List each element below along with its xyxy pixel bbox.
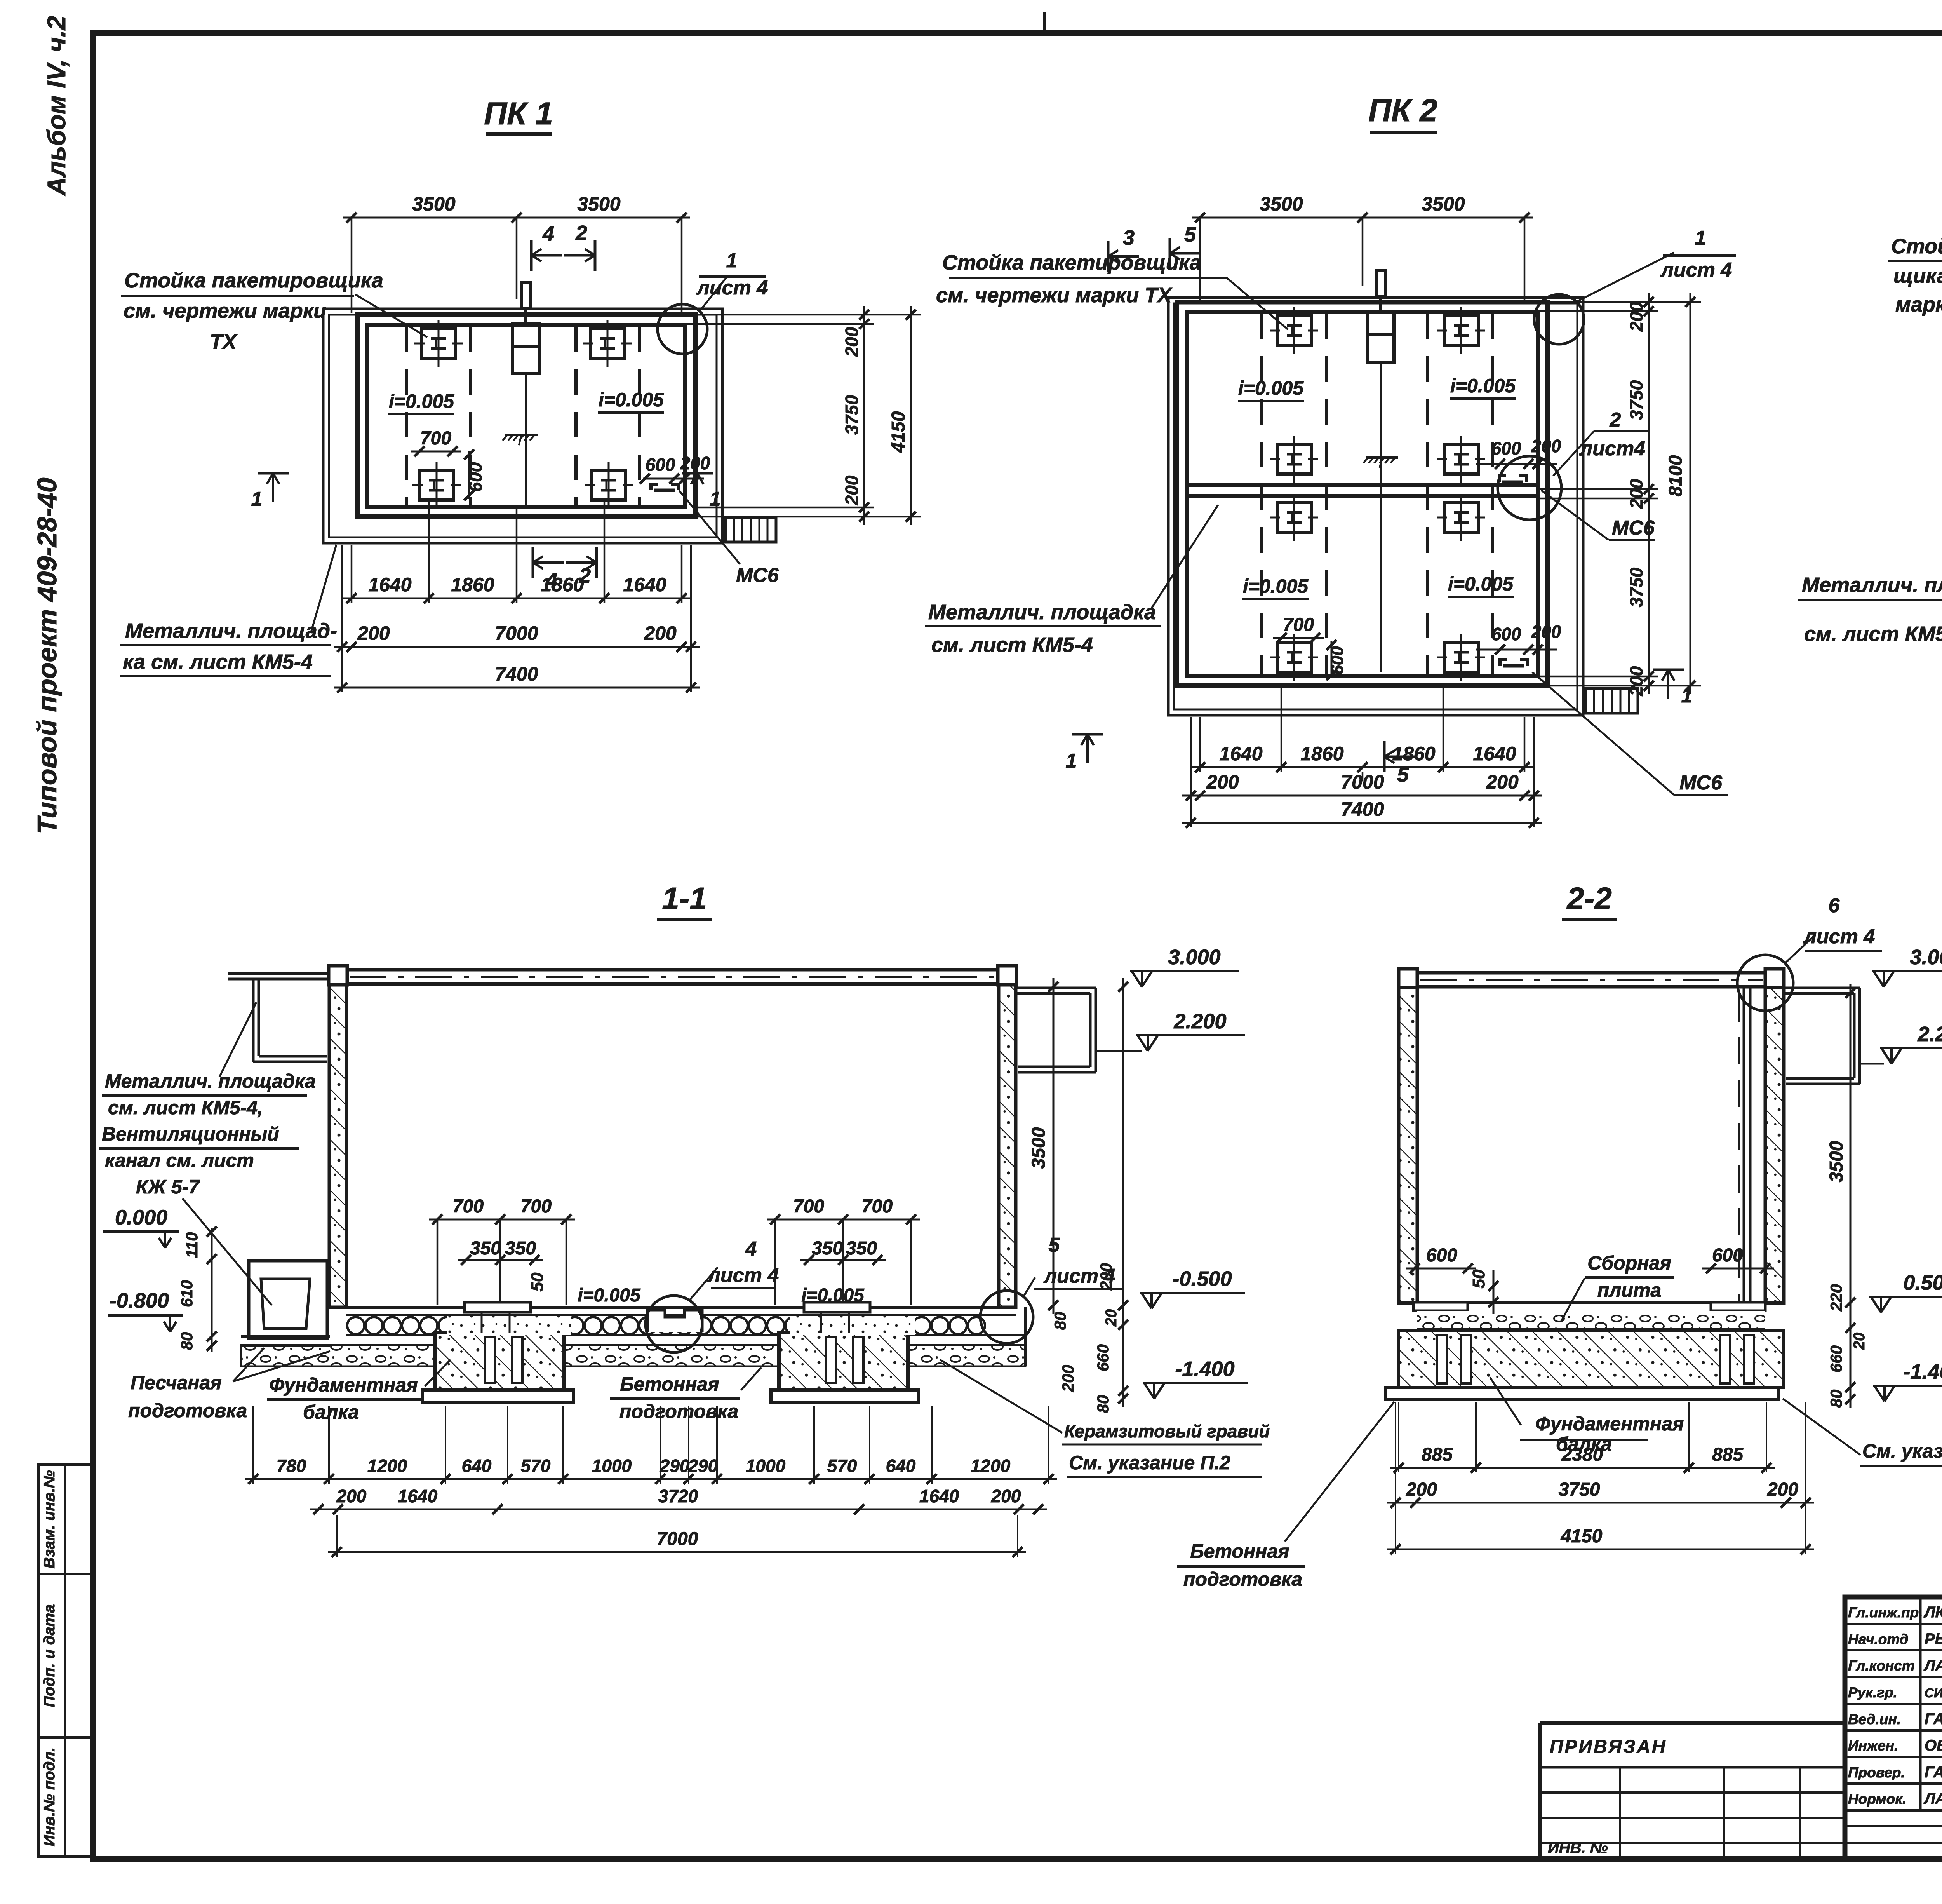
- svg-text:ЛАПКИН: ЛАПКИН: [1923, 1790, 1942, 1807]
- plan PK2 stands: [1277, 316, 1311, 345]
- svg-text:лист 4: лист 4: [696, 277, 768, 299]
- svg-text:290: 290: [688, 1456, 718, 1476]
- section 1-1 joint zone left: [447, 1316, 571, 1335]
- plan PK1 leader площадка: [311, 545, 336, 633]
- svg-text:балка: балка: [303, 1401, 359, 1423]
- plan PK2 leader площадка: [1150, 505, 1218, 610]
- section 1-1 floor right end: [1024, 1307, 1027, 1366]
- svg-text:200: 200: [842, 475, 862, 505]
- section 2-2 leader бетонная подготовка: [1285, 1402, 1394, 1542]
- plan PK1 stand top-left: [421, 329, 456, 358]
- svg-text:Инв.№ подл.: Инв.№ подл.: [41, 1747, 58, 1847]
- svg-text:Рук.гр.: Рук.гр.: [1848, 1685, 1897, 1700]
- section 1-1 dim 350 350 left: [458, 1259, 543, 1261]
- section 1-1 bottom dim chain detailed: [245, 1478, 1057, 1480]
- svg-text:1640: 1640: [1473, 743, 1516, 765]
- svg-text:600: 600: [1712, 1245, 1743, 1266]
- svg-text:200: 200: [1486, 771, 1519, 793]
- svg-text:ГАЛЬПЕРИНА: ГАЛЬПЕРИНА: [1925, 1764, 1942, 1781]
- plan PK1 bottom dim 7400: [334, 687, 700, 689]
- title block привязан box: [1540, 1721, 1845, 1725]
- plan PK2 view mark 1 left: [1072, 733, 1103, 736]
- plan PK2 lane dashed lines: [1260, 314, 1263, 674]
- svg-text:ЛАПКИН: ЛАПКИН: [1923, 1657, 1942, 1674]
- svg-text:i=0.005: i=0.005: [1243, 575, 1309, 597]
- section 1-1 level 2.200: [1138, 1035, 1148, 1051]
- plan PK2 right dim 8100: [1690, 293, 1691, 694]
- svg-text:640: 640: [886, 1456, 916, 1476]
- svg-text:РЫБКИНА: РЫБКИНА: [1925, 1631, 1942, 1648]
- svg-text:Вентиляционный: Вентиляционный: [102, 1123, 279, 1145]
- svg-text:ПК 1: ПК 1: [484, 96, 553, 131]
- svg-text:1640: 1640: [623, 574, 666, 596]
- svg-text:200: 200: [644, 622, 677, 644]
- section 1-1 gravel band: [241, 1345, 1025, 1366]
- section 1-1 dim 350 350 right: [800, 1259, 886, 1261]
- plan PK2 leader стойка: [1227, 278, 1288, 329]
- svg-text:1: 1: [726, 249, 738, 272]
- section 2-2 right walkway bracket: [1784, 987, 1860, 989]
- svg-text:700: 700: [520, 1196, 552, 1217]
- svg-text:2-2: 2-2: [1566, 881, 1612, 916]
- section 1-1 floor bottom line: [346, 1334, 1025, 1336]
- plan PK1 chamber wall outer: [357, 315, 695, 517]
- svg-text:3.000: 3.000: [1910, 946, 1942, 969]
- svg-text:3750: 3750: [1626, 380, 1646, 420]
- section 2-2 callout circle 6: [1737, 955, 1793, 1011]
- svg-text:600: 600: [1328, 646, 1347, 675]
- svg-text:ЛЮБАВИН: ЛЮБАВИН: [1923, 1604, 1942, 1621]
- svg-text:80: 80: [1051, 1312, 1069, 1330]
- svg-text:1200: 1200: [971, 1456, 1011, 1476]
- svg-text:1860: 1860: [451, 574, 494, 596]
- svg-text:700: 700: [420, 428, 451, 449]
- plan PK2 stair hatch: [1585, 688, 1638, 713]
- svg-text:Стойка пакетировщика: Стойка пакетировщика: [124, 269, 383, 292]
- svg-text:700: 700: [793, 1196, 824, 1217]
- svg-text:1: 1: [251, 488, 263, 510]
- plan PK1 right dim 4150: [910, 306, 912, 525]
- plan PK2 section mark 3 top: [1107, 241, 1110, 272]
- svg-text:2.200: 2.200: [1917, 1023, 1942, 1046]
- svg-text:Бетонная: Бетонная: [620, 1373, 719, 1395]
- svg-text:1640: 1640: [1219, 743, 1262, 765]
- svg-text:СИНЕЛЬНИКОВА: СИНЕЛЬНИКОВА: [1925, 1686, 1942, 1700]
- plan PK1 callout circle 1: [658, 304, 707, 354]
- svg-text:200: 200: [357, 622, 390, 644]
- svg-text:3: 3: [1123, 226, 1135, 249]
- svg-text:ПК 2: ПК 2: [1368, 93, 1437, 128]
- section 1-1 foundation beam right: [779, 1333, 908, 1390]
- section 2-2 dim 600 left: [1406, 1268, 1476, 1270]
- plan PK2 dim 600 vertical: [1331, 641, 1333, 678]
- section 1-1 bottom dim chain 200 1640 3720 1640 200: [310, 1509, 1047, 1510]
- title block signature grid: [1919, 1597, 1922, 1810]
- svg-text:350: 350: [505, 1238, 536, 1259]
- section 1-1 right wall: [999, 985, 1016, 1307]
- svg-text:см. лист КМ5-4: см. лист КМ5-4: [1804, 622, 1942, 646]
- section 1-1 upstand left: [465, 1302, 531, 1312]
- section 2-2 base studs: [1437, 1335, 1447, 1383]
- section 1-1 left wall: [329, 985, 346, 1307]
- svg-text:780: 780: [277, 1456, 306, 1476]
- svg-text:-1.400: -1.400: [1903, 1360, 1942, 1383]
- plan PK2 bracket MC6 at partition: [1499, 476, 1506, 482]
- svg-text:-0.800: -0.800: [110, 1289, 169, 1312]
- plan PK1 view mark 1 left: [258, 472, 289, 475]
- svg-text:640: 640: [462, 1456, 492, 1476]
- svg-text:600: 600: [646, 455, 675, 475]
- svg-text:3.000: 3.000: [1168, 946, 1220, 969]
- svg-text:3500: 3500: [412, 193, 455, 215]
- plan PK1 section mark 2 bottom: [595, 547, 598, 578]
- plan PK1 leader to MC6: [679, 490, 740, 564]
- svg-text:Вед.ин.: Вед.ин.: [1848, 1711, 1901, 1727]
- svg-text:110: 110: [183, 1232, 201, 1258]
- plan PK2 callout circle 2: [1498, 456, 1561, 520]
- svg-text:Песчаная: Песчаная: [131, 1372, 222, 1394]
- section 2-2 roof cap right: [1765, 969, 1784, 988]
- svg-text:подготовка: подготовка: [619, 1401, 738, 1422]
- svg-text:4: 4: [542, 222, 554, 246]
- plan PK2 bracket MC6 bottom: [1500, 660, 1507, 666]
- svg-text:лист 4: лист 4: [1660, 259, 1732, 281]
- svg-text:1860: 1860: [541, 574, 584, 596]
- svg-text:канал см. лист: канал см. лист: [105, 1150, 254, 1171]
- svg-text:1000: 1000: [592, 1456, 632, 1476]
- plan PK2 section mark 5 bottom: [1383, 741, 1386, 772]
- plan PK1 platform outline: [323, 309, 722, 543]
- plan PK1 lane dashed lines: [405, 326, 408, 506]
- svg-text:7000: 7000: [495, 622, 538, 644]
- section 2-2 right wall: [1765, 988, 1784, 1303]
- plan PK1 chamber wall inner: [367, 325, 685, 507]
- section 2-2 roof slab: [1417, 971, 1765, 975]
- plan PK2 callout circle 1 top right: [1534, 294, 1584, 344]
- plan PK2 bottom dim chain 200 7000 200: [1182, 795, 1542, 797]
- svg-text:ОВЧАРОВА: ОВЧАРОВА: [1925, 1737, 1942, 1754]
- section 1-1 callout circle 5: [980, 1291, 1033, 1343]
- title block outer: [1845, 1597, 1942, 1859]
- svg-text:ТХ: ТХ: [210, 330, 238, 354]
- section 1-1 left small dims: [211, 1228, 213, 1352]
- svg-text:4: 4: [745, 1238, 757, 1260]
- svg-text:1860: 1860: [1392, 743, 1435, 765]
- section 1-1 callout circle 4: [646, 1296, 702, 1352]
- svg-text:балка: балка: [1556, 1433, 1612, 1455]
- plan PK1 stand bottom-right: [592, 470, 626, 500]
- plan PK2 chamber wall outer: [1177, 302, 1548, 686]
- svg-text:i=0.005: i=0.005: [1238, 377, 1304, 399]
- svg-text:Провер.: Провер.: [1848, 1765, 1905, 1780]
- plan PK2 bottom dim chain 1640 1860 1860 1640: [1192, 766, 1533, 768]
- section 1-1 right walkway bracket: [1016, 987, 1096, 989]
- section 1-1 hollow core circles: [347, 1317, 364, 1334]
- svg-text:-0.500: -0.500: [1172, 1267, 1232, 1291]
- svg-text:i=0.005: i=0.005: [1450, 375, 1516, 397]
- plan PK2 section mark 5 top: [1169, 238, 1171, 269]
- svg-text:5: 5: [1049, 1234, 1060, 1256]
- plan PK1 ground symbol: [505, 434, 538, 436]
- svg-text:Металлич. площадка: Металлич. площадка: [105, 1070, 316, 1092]
- section 1-1 roof cap left: [329, 966, 347, 985]
- svg-text:1200: 1200: [367, 1456, 407, 1476]
- svg-text:1640: 1640: [919, 1486, 959, 1506]
- svg-text:4150: 4150: [1561, 1526, 1603, 1547]
- svg-text:600: 600: [1491, 624, 1521, 644]
- svg-text:3500: 3500: [1422, 193, 1465, 215]
- svg-text:7000: 7000: [1341, 771, 1384, 793]
- svg-text:Бетонная: Бетонная: [1190, 1540, 1289, 1562]
- plan PK1 bottom dim chain 200 7000 200: [334, 646, 700, 648]
- svg-text:200: 200: [842, 327, 862, 357]
- section 1-1 foundation beam left: [435, 1333, 564, 1390]
- margin stamp strip: [39, 1465, 93, 1856]
- section 1-1 beam left studs: [485, 1337, 495, 1383]
- svg-text:лист 4: лист 4: [707, 1264, 779, 1287]
- svg-text:см. чертежи марки: см. чертежи марки: [124, 299, 326, 322]
- svg-text:570: 570: [521, 1456, 551, 1476]
- svg-text:подготовка: подготовка: [128, 1400, 247, 1421]
- section 1-1 floor top line: [346, 1306, 999, 1309]
- svg-text:350: 350: [846, 1238, 877, 1259]
- svg-text:Инжен.: Инжен.: [1848, 1738, 1898, 1754]
- plan PK1 bottom dim chain 1640 1860 1860 1640: [343, 598, 690, 599]
- svg-text:лист4: лист4: [1579, 437, 1645, 460]
- plan PK1 stair hatch: [726, 518, 776, 542]
- plan PK1 right dim chain 200 3750 200: [863, 306, 865, 525]
- plan PK2 chamber wall inner: [1187, 312, 1538, 676]
- svg-text:Металлич. площадка: Металлич. площадка: [1802, 573, 1942, 597]
- svg-text:700: 700: [1283, 615, 1314, 635]
- svg-text:-1.400: -1.400: [1175, 1357, 1234, 1381]
- section 2-2 slab band: [1417, 1327, 1765, 1329]
- svg-text:Стойка пакетиров-: Стойка пакетиров-: [1891, 235, 1942, 258]
- svg-text:Взам. инв.№: Взам. инв.№: [41, 1470, 58, 1568]
- section 2-2 floor upstand left: [1413, 1302, 1468, 1311]
- svg-text:Фундаментная: Фундаментная: [1535, 1413, 1684, 1435]
- svg-text:80: 80: [1827, 1390, 1845, 1408]
- svg-text:4150: 4150: [888, 411, 909, 453]
- svg-text:См. указание П.2: См. указание П.2: [1862, 1440, 1942, 1462]
- svg-text:600: 600: [1426, 1245, 1457, 1266]
- svg-text:Сборная: Сборная: [1587, 1252, 1671, 1274]
- svg-text:50: 50: [528, 1272, 547, 1291]
- svg-text:1: 1: [1695, 227, 1706, 249]
- svg-text:Гл.инж.пр.: Гл.инж.пр.: [1848, 1604, 1923, 1620]
- plan PK1 bracket MC6 symbol: [651, 484, 658, 490]
- svg-text:ка см. лист КМ5-4: ка см. лист КМ5-4: [123, 650, 313, 674]
- svg-text:7000: 7000: [657, 1529, 698, 1549]
- plan PK1 dim 700: [411, 451, 461, 453]
- svg-text:350: 350: [812, 1238, 843, 1259]
- section 2-2 bottom dim 4150: [1387, 1549, 1814, 1550]
- svg-text:200: 200: [1406, 1479, 1437, 1500]
- svg-text:660: 660: [1827, 1345, 1845, 1373]
- plan PK1 top dim 3500+3500: [343, 217, 690, 219]
- plan PK1 section mark 4 bottom: [532, 547, 534, 578]
- section 2-2 level 2.200: [1881, 1048, 1892, 1064]
- plan PK2 ground symbol: [1366, 456, 1398, 459]
- section 2-2 level 3.000: [1874, 971, 1884, 987]
- section 1-1 dim 700 700 right: [767, 1219, 920, 1221]
- section 1-1 leader площадка: [219, 1002, 256, 1077]
- svg-text:ГАЛЬПЕРИНА: ГАЛЬПЕРИНА: [1925, 1711, 1942, 1728]
- svg-text:1860: 1860: [1300, 743, 1343, 765]
- svg-text:лист 4: лист 4: [1803, 925, 1875, 948]
- svg-text:610: 610: [177, 1280, 196, 1307]
- svg-text:i=0.005: i=0.005: [801, 1285, 865, 1306]
- section 1-1 bottom dim 7000: [328, 1551, 1026, 1553]
- section 2-2 floor upstand right: [1711, 1302, 1765, 1311]
- plan PK1 view mark 1 right: [682, 472, 713, 475]
- svg-text:200: 200: [991, 1486, 1021, 1506]
- section 1-1 dim 700 700 left: [429, 1219, 575, 1221]
- svg-text:Керамзитовый гравий: Керамзитовый гравий: [1064, 1421, 1270, 1441]
- plan PK2 top dim 3500+3500: [1192, 217, 1533, 219]
- plan PK2 platform outline: [1168, 298, 1583, 715]
- svg-text:3750: 3750: [1559, 1479, 1600, 1500]
- section 1-1 base plate left: [422, 1390, 574, 1402]
- section 2-2 dim 600 right: [1702, 1268, 1774, 1270]
- svg-text:Подп. и дата: Подп. и дата: [41, 1604, 58, 1707]
- svg-text:7400: 7400: [1341, 798, 1384, 820]
- plan PK2 middle partition: [1187, 483, 1538, 487]
- section 1-1 right small dims chain: [1122, 978, 1124, 1407]
- plan PK1 section mark 4 top: [530, 240, 533, 271]
- svg-text:i=0.005: i=0.005: [599, 389, 664, 411]
- section 2-2 base concrete: [1399, 1331, 1784, 1387]
- plan PK1 dim 600 vertical: [468, 451, 470, 499]
- svg-text:Металлич. площадка: Металлич. площадка: [928, 601, 1156, 624]
- svg-text:885: 885: [1422, 1444, 1453, 1465]
- svg-text:3500: 3500: [577, 193, 620, 215]
- svg-text:i=0.005: i=0.005: [389, 390, 454, 412]
- section 1-1 roof slab: [346, 968, 999, 972]
- plan PK1 stand bottom-left: [419, 470, 454, 500]
- svg-text:Гл.конст: Гл.конст: [1848, 1658, 1915, 1674]
- plan PK2 right dim chain 200 3750 200 3750 200: [1648, 293, 1650, 694]
- svg-text:ИНВ. №: ИНВ. №: [1548, 1840, 1608, 1857]
- svg-text:200: 200: [1767, 1479, 1798, 1500]
- section 1-1 leader канал: [183, 1198, 272, 1305]
- svg-text:600: 600: [1491, 438, 1521, 458]
- svg-text:Фундаментная: Фундаментная: [269, 1374, 418, 1396]
- svg-text:3750: 3750: [1626, 567, 1646, 607]
- svg-text:0.500: 0.500: [1903, 1271, 1942, 1294]
- plan PK2 dim 700: [1273, 637, 1324, 639]
- svg-text:1640: 1640: [398, 1486, 438, 1506]
- section 1-1 level 3.000: [1132, 971, 1142, 987]
- svg-text:КЖ 5-7: КЖ 5-7: [136, 1176, 200, 1198]
- plan PK2 bottom dim 7400: [1182, 822, 1542, 824]
- plan PK1 leader стойка to stand: [355, 294, 427, 337]
- svg-text:1640: 1640: [368, 574, 411, 596]
- svg-text:0.000: 0.000: [115, 1206, 167, 1229]
- svg-text:см. лист КМ5-4: см. лист КМ5-4: [931, 633, 1093, 657]
- svg-text:80: 80: [1094, 1395, 1112, 1413]
- svg-text:см. чертежи марки ТХ: см. чертежи марки ТХ: [936, 284, 1173, 307]
- svg-text:200: 200: [1531, 436, 1561, 456]
- svg-text:290: 290: [660, 1456, 690, 1476]
- plan PK1 central actuator: [521, 282, 531, 308]
- section 2-2 bottom dim 200 3750 200: [1387, 1502, 1814, 1504]
- fold mark top 1: [1043, 12, 1046, 33]
- section 1-1 upstand right: [804, 1302, 870, 1312]
- svg-text:1: 1: [1066, 750, 1077, 772]
- plan PK1 section mark 2 top: [594, 240, 597, 271]
- svg-text:200: 200: [1206, 771, 1239, 793]
- svg-text:марки ТХ: марки ТХ: [1895, 293, 1942, 316]
- svg-text:5: 5: [1184, 223, 1196, 246]
- svg-text:3500: 3500: [1028, 1127, 1049, 1169]
- svg-text:50: 50: [1469, 1269, 1488, 1288]
- svg-text:200: 200: [1531, 622, 1561, 642]
- section 2-2 left wall: [1399, 988, 1417, 1303]
- section 1-1 joint zone right: [790, 1316, 915, 1335]
- svg-text:700: 700: [861, 1196, 893, 1217]
- svg-text:1-1: 1-1: [662, 881, 707, 916]
- section 2-2 bottom dim 885 2380 885: [1390, 1467, 1775, 1469]
- svg-text:660: 660: [1094, 1344, 1112, 1371]
- svg-text:200: 200: [336, 1486, 367, 1506]
- svg-text:i=0.005: i=0.005: [578, 1285, 641, 1306]
- section 1-1 dim 3500 vertical: [1053, 978, 1055, 1314]
- svg-text:См. указание П.2: См. указание П.2: [1069, 1452, 1230, 1474]
- svg-text:200: 200: [1626, 666, 1646, 696]
- section 1-1 level -1.400: [1144, 1383, 1154, 1399]
- section 1-1 roof cap right: [998, 966, 1016, 985]
- svg-text:Металлич. площад-: Металлич. площад-: [125, 619, 337, 643]
- svg-text:200: 200: [1059, 1365, 1077, 1392]
- svg-text:лист 4: лист 4: [1043, 1265, 1115, 1287]
- svg-text:подготовка: подготовка: [1183, 1568, 1302, 1590]
- svg-text:щика см. чертежи: щика см. чертежи: [1893, 264, 1942, 287]
- svg-text:200: 200: [1626, 301, 1646, 332]
- svg-text:3720: 3720: [658, 1486, 698, 1506]
- section 1-1 base plate right: [771, 1390, 919, 1402]
- svg-text:ПРИВЯЗАН: ПРИВЯЗАН: [1550, 1737, 1667, 1757]
- section 2-2 roof cap left: [1399, 969, 1417, 988]
- svg-text:2: 2: [575, 221, 587, 245]
- svg-text:200: 200: [680, 453, 710, 473]
- svg-text:8100: 8100: [1665, 455, 1686, 496]
- svg-text:600: 600: [465, 462, 486, 492]
- section 2-2 floor slab: [1417, 1301, 1765, 1304]
- svg-text:3500: 3500: [1260, 193, 1303, 215]
- svg-text:см. лист КМ5-4,: см. лист КМ5-4,: [108, 1097, 263, 1118]
- section 1-1 level -0.500: [1142, 1293, 1152, 1308]
- plan PK2 central actuator: [1376, 271, 1385, 296]
- section 2-2 vent partition: [1743, 987, 1745, 1302]
- plan PK1 stand top-right: [590, 329, 625, 358]
- svg-text:2.200: 2.200: [1173, 1010, 1226, 1033]
- svg-text:МС6: МС6: [1679, 772, 1723, 794]
- svg-text:6: 6: [1829, 894, 1840, 917]
- svg-text:МС6: МС6: [736, 564, 779, 587]
- svg-text:350: 350: [470, 1238, 501, 1259]
- svg-text:1000: 1000: [746, 1456, 786, 1476]
- svg-text:плита: плита: [1597, 1279, 1661, 1301]
- svg-text:885: 885: [1712, 1444, 1744, 1465]
- svg-text:2: 2: [1610, 409, 1621, 431]
- section 1-1 beam right studs: [826, 1337, 836, 1383]
- svg-text:570: 570: [827, 1456, 857, 1476]
- svg-text:3500: 3500: [1826, 1141, 1847, 1182]
- svg-text:Альбом IV, ч.2: Альбом IV, ч.2: [42, 16, 71, 196]
- svg-text:i=0.005: i=0.005: [1448, 573, 1514, 595]
- svg-text:80: 80: [177, 1332, 196, 1350]
